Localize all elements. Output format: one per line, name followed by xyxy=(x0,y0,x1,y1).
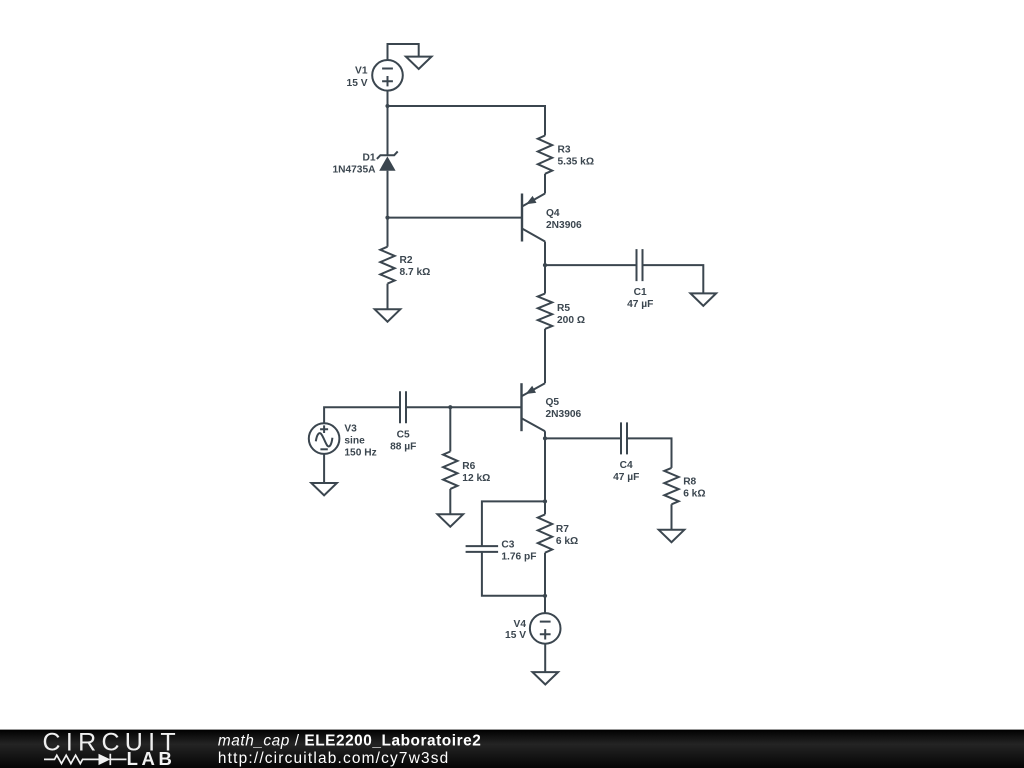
wire VCC to D1 cathode xyxy=(387,106,389,155)
wire C5 to node IN xyxy=(406,406,450,408)
node VCC junction xyxy=(385,104,389,108)
label R2 8.7 kOhm xyxy=(400,255,431,278)
wire V3 to C5 xyxy=(324,407,400,423)
label V3 sine 150 Hz xyxy=(344,424,376,459)
wire Q5 collector to node OUT xyxy=(544,431,546,438)
ground right of C1 xyxy=(691,293,717,305)
wire node E1 to R5 xyxy=(544,265,546,294)
label C3 1.76 pF xyxy=(501,539,536,562)
wire node OUT to C4 xyxy=(545,437,621,439)
svg-text:R612 kΩ: R612 kΩ xyxy=(462,461,490,484)
logo resistor squiggle xyxy=(44,755,99,763)
resistor R8 xyxy=(664,468,678,504)
ground below V4 xyxy=(533,672,559,684)
wire R5 to Q5 emitter xyxy=(544,329,546,383)
CircuitLab logo LAB xyxy=(127,748,176,768)
footer url text xyxy=(218,750,450,767)
label C4 47 uF xyxy=(613,460,639,483)
svg-text:Q42N3906: Q42N3906 xyxy=(546,208,582,231)
wire Q4 collector to node E1 xyxy=(544,242,546,266)
wire D1 anode to node B xyxy=(387,171,389,218)
wire R3 to Q4 emitter xyxy=(544,174,546,194)
svg-text:V415 V: V415 V xyxy=(505,619,526,641)
ground near V1 xyxy=(406,57,432,69)
svg-text:V115 V: V115 V xyxy=(347,65,368,89)
svg-text:C147 µF: C147 µF xyxy=(627,287,653,310)
wire C3 bottom to node G xyxy=(482,552,545,596)
label R7 6 kOhm xyxy=(556,524,578,547)
wire node G to V4 xyxy=(544,596,546,613)
svg-text:R86 kΩ: R86 kΩ xyxy=(683,476,705,499)
voltage source V4 xyxy=(530,613,561,644)
label R3 5.35 kOhm xyxy=(558,145,595,168)
svg-text:C31.76 pF: C31.76 pF xyxy=(501,539,536,562)
svg-text:Q52N3906: Q52N3906 xyxy=(546,397,582,420)
wire node B to R2 xyxy=(387,218,389,247)
resistor R2 xyxy=(380,247,394,284)
footer title text xyxy=(218,732,481,749)
wire node B to Q4 base xyxy=(388,217,523,219)
svg-text:V3sine150 Hz: V3sine150 Hz xyxy=(344,424,376,459)
wire C1 to ground xyxy=(643,265,704,293)
node E1 junction xyxy=(543,263,547,267)
capacitor C3 xyxy=(466,546,499,552)
svg-text:R28.7 kΩ: R28.7 kΩ xyxy=(400,255,431,278)
label R6 12 kOhm xyxy=(462,461,490,484)
label V1 15 V xyxy=(347,65,368,89)
wire node E1 to C1 xyxy=(545,264,637,266)
wire VCC rail to R3 xyxy=(388,106,546,136)
svg-text:LAB: LAB xyxy=(127,748,176,768)
label Q5 2N3906 xyxy=(546,397,582,420)
ground below R6 xyxy=(438,514,464,526)
resistor R3 xyxy=(538,136,552,174)
node OUT junction xyxy=(543,436,547,440)
ground below R2 xyxy=(375,309,401,321)
node F junction xyxy=(543,499,547,503)
wire V4 to ground xyxy=(544,644,546,672)
wire node IN to R6 xyxy=(449,407,451,451)
ground below V3 xyxy=(311,483,337,495)
label C1 47 uF xyxy=(627,287,653,310)
resistor R6 xyxy=(443,452,457,489)
wire node F to R7 xyxy=(544,501,546,514)
wire R2 to ground xyxy=(387,284,389,310)
voltage source V3 sine xyxy=(309,423,340,454)
wire R8 to ground xyxy=(671,504,673,530)
svg-text:C447 µF: C447 µF xyxy=(613,460,639,483)
wire V1 bottom to node VCC xyxy=(387,90,389,106)
wire C4 to R8 xyxy=(627,438,672,468)
resistor R5 xyxy=(538,294,552,329)
label R8 6 kOhm xyxy=(683,476,705,499)
capacitor C4 xyxy=(621,422,627,454)
label Q4 2N3906 xyxy=(546,208,582,231)
label C5 88 uF xyxy=(390,429,416,452)
capacitor C5 xyxy=(400,391,406,423)
wire R7 to node G xyxy=(544,553,546,596)
wire node IN to Q5 base xyxy=(450,406,521,408)
voltage source V1 xyxy=(372,60,403,91)
transistor Q4 xyxy=(522,194,545,242)
node G junction xyxy=(543,594,547,598)
label D1 1N4735A xyxy=(332,152,376,175)
resistor R7 xyxy=(538,514,552,552)
label V4 15 V xyxy=(505,619,526,641)
svg-text:R5200 Ω: R5200 Ω xyxy=(557,303,585,326)
svg-text:C588 µF: C588 µF xyxy=(390,429,416,452)
logo diode symbol xyxy=(99,754,127,765)
svg-text:R76 kΩ: R76 kΩ xyxy=(556,524,578,547)
diode D1 zener xyxy=(377,151,398,170)
wire node OUT down to node F xyxy=(544,438,546,501)
CircuitLab logo wordmark CIRCUIT xyxy=(43,729,181,757)
transistor Q5 xyxy=(522,383,546,431)
wire node F to C3 top xyxy=(482,501,545,546)
footer brand bar xyxy=(0,730,1024,768)
svg-text:D11N4735A: D11N4735A xyxy=(332,152,376,175)
svg-text:math_cap / ELE2200_Laboratoire: math_cap / ELE2200_Laboratoire2 xyxy=(218,732,481,749)
wire V3 to ground xyxy=(323,454,325,483)
capacitor C1 xyxy=(637,249,643,281)
wire R6 to ground xyxy=(449,489,451,514)
ground below R8 xyxy=(659,530,685,542)
wire V1 top to ground xyxy=(388,44,419,60)
V3 sine wave symbol xyxy=(316,433,333,446)
svg-text:R35.35 kΩ: R35.35 kΩ xyxy=(558,145,595,168)
label R5 200 Ohm xyxy=(557,303,585,326)
node IN junction xyxy=(448,405,452,409)
svg-text:http://circuitlab.com/cy7w3sd: http://circuitlab.com/cy7w3sd xyxy=(218,750,450,767)
node B junction xyxy=(385,216,389,220)
